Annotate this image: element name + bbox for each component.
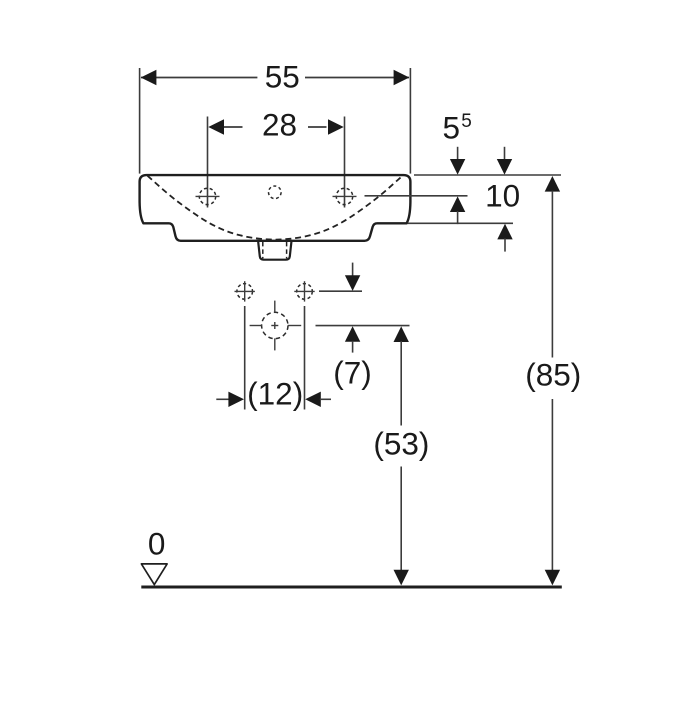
dimension 10 lower arrow xyxy=(497,224,512,252)
svg-text:(85): (85) xyxy=(525,357,581,393)
svg-text:(12): (12) xyxy=(247,376,303,412)
dimension 5.5 lower arrow xyxy=(450,196,465,224)
fixing hole right extension line xyxy=(304,306,306,410)
drain stub xyxy=(258,242,291,260)
dimension 28 line xyxy=(224,126,327,128)
dimension 53 line xyxy=(394,326,409,585)
right faucet hole xyxy=(333,188,357,204)
svg-text:(53): (53) xyxy=(373,426,429,462)
dimension 7 lower arrow xyxy=(345,326,360,352)
zero level symbol xyxy=(141,564,167,585)
svg-text:0: 0 xyxy=(148,525,166,561)
left fixing hole xyxy=(235,281,255,301)
fixing hole left extension line xyxy=(244,306,246,410)
svg-text:55: 55 xyxy=(265,59,300,95)
dimension 55 left extension line xyxy=(139,68,141,174)
washbasin outline xyxy=(140,175,411,241)
floor line xyxy=(141,586,562,589)
svg-text:5: 5 xyxy=(443,110,461,146)
dimension (12) left arrow xyxy=(216,392,244,407)
dimension 55 line xyxy=(141,77,409,79)
overflow hole xyxy=(269,186,282,199)
dimension 55 left arrowhead xyxy=(141,70,157,85)
siphon level reference line xyxy=(316,325,410,327)
basin bowl dashed rim xyxy=(148,176,403,240)
dimension 28 left extension line xyxy=(207,117,209,208)
top edge reference line xyxy=(414,174,561,176)
faucet level reference line xyxy=(365,195,468,197)
drain dashed line left xyxy=(262,242,264,259)
dimension 55 right arrowhead xyxy=(394,70,410,85)
svg-text:(7): (7) xyxy=(333,355,372,391)
dimension (12) right arrow xyxy=(305,392,331,407)
drain dashed line right xyxy=(286,242,288,259)
svg-text:28: 28 xyxy=(262,107,297,143)
dimension 5.5 upper arrow xyxy=(450,147,465,175)
dimension 10 upper arrow xyxy=(497,147,512,175)
dimension 7 upper reference line xyxy=(319,290,362,292)
dimension 28 left arrowhead xyxy=(208,119,224,134)
dimension 55 right extension line xyxy=(409,68,411,174)
dimension 28 right extension line xyxy=(344,117,346,208)
right fixing hole xyxy=(294,281,314,301)
siphon outlet symbol xyxy=(250,301,302,351)
svg-text:5: 5 xyxy=(461,111,472,132)
dimension 7 upper arrow xyxy=(345,263,360,291)
left faucet hole xyxy=(196,188,220,204)
dimension 28 right arrowhead xyxy=(328,119,344,134)
dimension 85 line xyxy=(545,176,560,585)
svg-text:10: 10 xyxy=(485,178,520,214)
ledge reference line xyxy=(408,222,514,224)
